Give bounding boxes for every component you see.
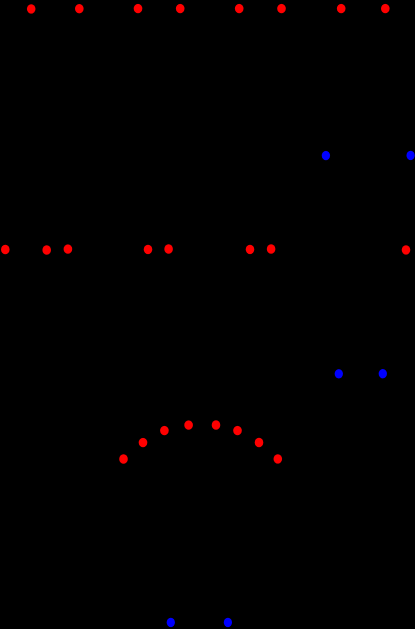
oxygen atom O14 (246, 245, 255, 254)
nitrogen atom N5 (167, 618, 175, 627)
oxygen atom O21 (212, 420, 221, 429)
oxygen atom O22 (233, 426, 242, 435)
oxygen atom O2 (75, 4, 84, 13)
nitrogen atom N3 (335, 369, 343, 378)
oxygen atom O15 (267, 244, 276, 253)
oxygen atom O12 (144, 245, 153, 254)
oxygen atom O23 (255, 438, 264, 447)
oxygen atom O20 (184, 420, 193, 429)
oxygen atom O10 (42, 245, 51, 254)
oxygen atom O16 (402, 245, 411, 254)
oxygen atom O3 (134, 4, 143, 13)
oxygen atom O8 (381, 4, 390, 13)
oxygen atom O4 (176, 4, 185, 13)
nitrogen atom N1 (322, 151, 330, 160)
nitrogen atom N4 (379, 369, 387, 378)
oxygen atom O7 (337, 4, 346, 13)
oxygen atom O6 (277, 4, 286, 13)
oxygen atom O24 (274, 454, 283, 463)
oxygen atom O18 (139, 438, 148, 447)
oxygen atom O11 (64, 244, 73, 253)
oxygen atom O17 (119, 454, 128, 463)
oxygen atom O5 (235, 4, 244, 13)
nitrogen atom N6 (224, 618, 232, 627)
oxygen atom O1 (27, 4, 36, 13)
nitrogen atom N2 (406, 151, 414, 160)
oxygen atom O13 (164, 244, 173, 253)
oxygen atom O9 (1, 245, 10, 254)
oxygen atom O19 (160, 426, 169, 435)
